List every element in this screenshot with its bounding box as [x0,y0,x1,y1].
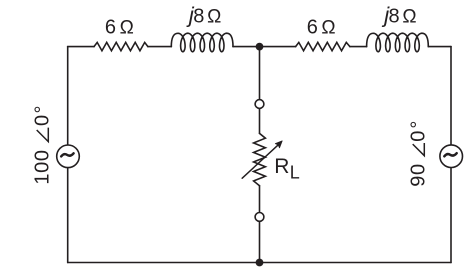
svg-text:90: 90 [407,163,429,186]
resistor R1 6 ohm (left) [94,42,148,50]
wire: middle branch top [259,47,261,100]
svg-text:100: 100 [31,149,53,184]
wire: right inductor to top-right corner [428,46,451,48]
wire: top-left horizontal [68,46,94,48]
wire: left vertical lower [67,168,69,263]
sine tilde of source V2 [444,153,456,156]
svg-text:L: L [290,162,300,182]
wire: terminal to RL [259,109,261,134]
svg-text:6: 6 [105,17,116,39]
wire: right vertical upper [450,47,452,145]
wire: bottom [68,262,451,264]
wire: left resistor to left inductor [148,46,171,48]
value label 100 angle 0 deg for source V1 (rotated) [31,104,53,185]
arrowhead of variable resistor [275,141,282,148]
value label 90 angle 0 deg for source V2 (rotated) [407,119,429,187]
variable resistor RL zigzag [254,133,266,185]
node junction dot (top middle) [256,43,264,51]
AC source V1 circle (left) [57,145,80,168]
resistor R2 6 ohm (right) [296,42,350,50]
open terminal node (lower) [255,213,264,222]
wire: left vertical upper [67,47,69,145]
node junction dot (bottom middle) [256,259,264,267]
svg-text:8: 8 [193,5,204,27]
inductor L2 j8 ohm (right) [367,33,429,52]
wire: right vertical lower [450,168,452,263]
svg-text:Ω: Ω [321,18,335,39]
svg-text:8: 8 [389,5,400,27]
arrow shaft of variable resistor [242,145,278,179]
AC source V2 circle (right) [440,145,463,168]
wire: right resistor to right inductor [350,46,367,48]
wire: RL to bottom terminal [259,186,261,213]
svg-text:R: R [274,155,289,178]
svg-text:Ω: Ω [402,6,416,27]
svg-text:0°: 0° [31,104,53,126]
svg-text:Ω: Ω [207,6,221,27]
svg-text:0°: 0° [407,119,429,142]
svg-text:Ω: Ω [120,18,134,39]
open terminal node (upper) [255,100,264,109]
sine tilde of source V1 [61,153,73,156]
inductor L1 j8 ohm (left) [171,33,233,52]
wire: bottom terminal to bottom node [259,221,261,262]
wire: inductor to middle node to right resistor [233,46,296,48]
svg-text:6: 6 [307,17,318,39]
